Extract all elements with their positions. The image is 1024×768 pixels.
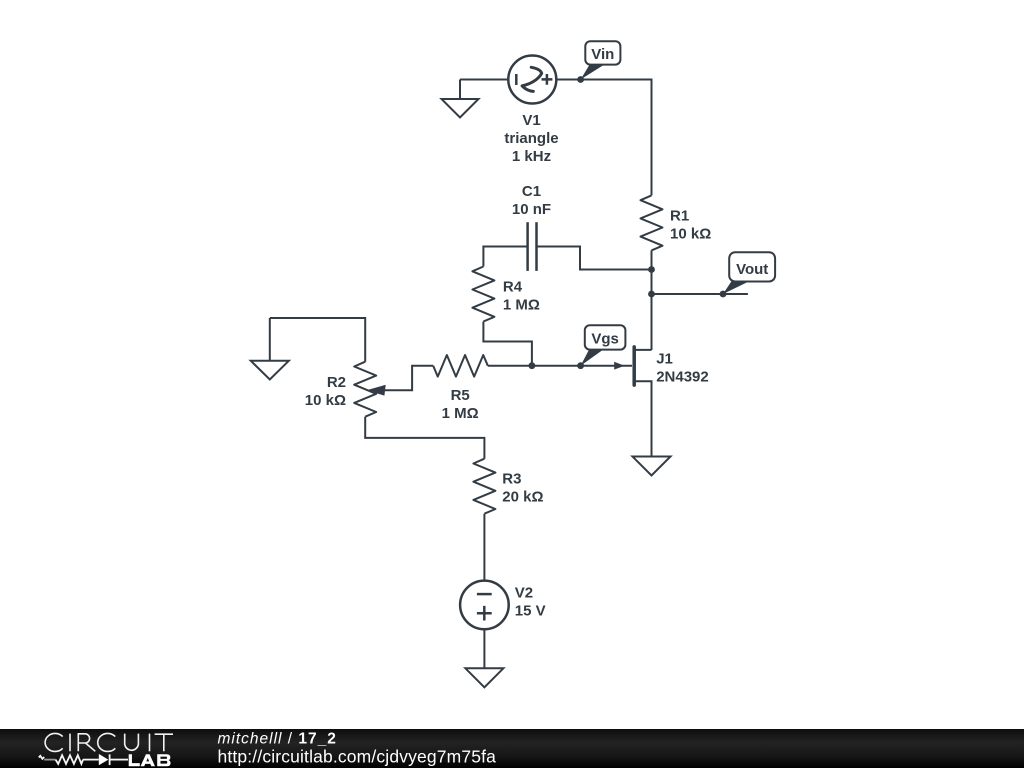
potentiometer R2 zigzag (354, 362, 376, 417)
J1 drain stub (635, 349, 652, 351)
node dot drain junction (648, 291, 655, 298)
V2 plus sign (477, 606, 492, 621)
wire R4 bottom to gate node (483, 322, 532, 366)
svg-text:mitchelll / 17_2: mitchelll / 17_2 (218, 730, 337, 747)
svg-text:2N4392: 2N4392 (656, 369, 709, 386)
svg-text:1 MΩ: 1 MΩ (442, 405, 479, 422)
capacitor C1 left plate (526, 222, 529, 271)
svg-text:http://circuitlab.com/cjdvyeg7: http://circuitlab.com/cjdvyeg7m75fa (218, 746, 497, 766)
label flag Vout box (729, 252, 775, 281)
svg-text:R4: R4 (503, 278, 523, 295)
Vout flag tail (723, 281, 749, 294)
J1 gate arrowhead (614, 362, 624, 370)
V1 triangle-wave glyph (522, 67, 542, 91)
transistor J1 channel bar (632, 347, 636, 385)
svg-text:Vgs: Vgs (591, 331, 619, 348)
svg-text:1 MΩ: 1 MΩ (503, 296, 540, 313)
wire R5 right to gate node (488, 365, 532, 367)
wire V1 right lead to R1 top (556, 80, 651, 196)
wire V2 bottom to ground (483, 629, 485, 668)
wire R2 wiper to R5 (379, 366, 433, 391)
logo resistor-diode symbol (44, 759, 128, 761)
svg-text:V1: V1 (522, 112, 540, 129)
svg-text:R3: R3 (502, 470, 521, 487)
svg-text:1 kHz: 1 kHz (512, 148, 551, 165)
node dot Vout (720, 291, 727, 298)
label flag Vgs box (585, 325, 626, 349)
resistor R3 zigzag (473, 459, 495, 514)
V1 plus sign (542, 74, 553, 85)
capacitor C1 right plate (535, 222, 538, 271)
svg-text:20 kΩ: 20 kΩ (502, 488, 543, 505)
wire C1 right to node (537, 247, 652, 270)
svg-text:J1: J1 (656, 351, 673, 368)
svg-text:V2: V2 (515, 585, 533, 602)
svg-text:15 V: 15 V (515, 603, 546, 620)
svg-text:Vout: Vout (736, 261, 768, 278)
resistor R5 zigzag (433, 355, 488, 377)
node dot gate junction (529, 362, 536, 369)
R2 wiper arrowhead (366, 385, 385, 396)
ground (under V2) (465, 668, 503, 687)
wire gate net (532, 365, 632, 367)
node dot Vin (577, 76, 584, 83)
svg-text:C1: C1 (522, 183, 541, 200)
wire ground to R2 top (270, 318, 365, 362)
svg-text:R5: R5 (451, 387, 470, 404)
svg-text:triangle: triangle (504, 130, 558, 147)
wire R2 bottom to R3 top (365, 417, 484, 459)
wire V1 left lead (460, 79, 508, 81)
wire R3 bottom to V2 top (483, 514, 485, 581)
wire R1 bottom to JFET drain (651, 250, 653, 350)
node dot Vgs (577, 362, 584, 369)
ground (under J1) (633, 457, 671, 476)
svg-text:R2: R2 (327, 374, 346, 391)
label flag Vin box (585, 41, 620, 64)
logo LAB letters (129, 754, 171, 766)
node dot C1/R1 junction (648, 266, 655, 273)
svg-text:R1: R1 (670, 207, 689, 224)
ground (left of R2) (269, 318, 271, 361)
Vgs flag tail (581, 350, 603, 366)
V2 minus sign (477, 593, 492, 596)
svg-text:10 kΩ: 10 kΩ (305, 392, 346, 409)
V1 minus sign (515, 74, 518, 85)
Vin flag tail (581, 65, 604, 80)
voltage source V1 circle (508, 56, 556, 104)
resistor R4 zigzag (472, 267, 494, 322)
wire C1 left to R4 top (483, 247, 527, 267)
svg-text:10 nF: 10 nF (512, 201, 551, 218)
logo diode triangle (99, 754, 109, 765)
J1 source stub (635, 381, 652, 456)
wire Vout stub (652, 293, 748, 295)
svg-text:Vin: Vin (591, 46, 614, 63)
resistor R1 zigzag (641, 195, 663, 250)
voltage source V2 circle (460, 581, 509, 630)
CircuitLab logo wordmark CIRCUIT (45, 733, 173, 751)
ground (near V1) (459, 80, 461, 100)
svg-text:10 kΩ: 10 kΩ (670, 225, 711, 242)
